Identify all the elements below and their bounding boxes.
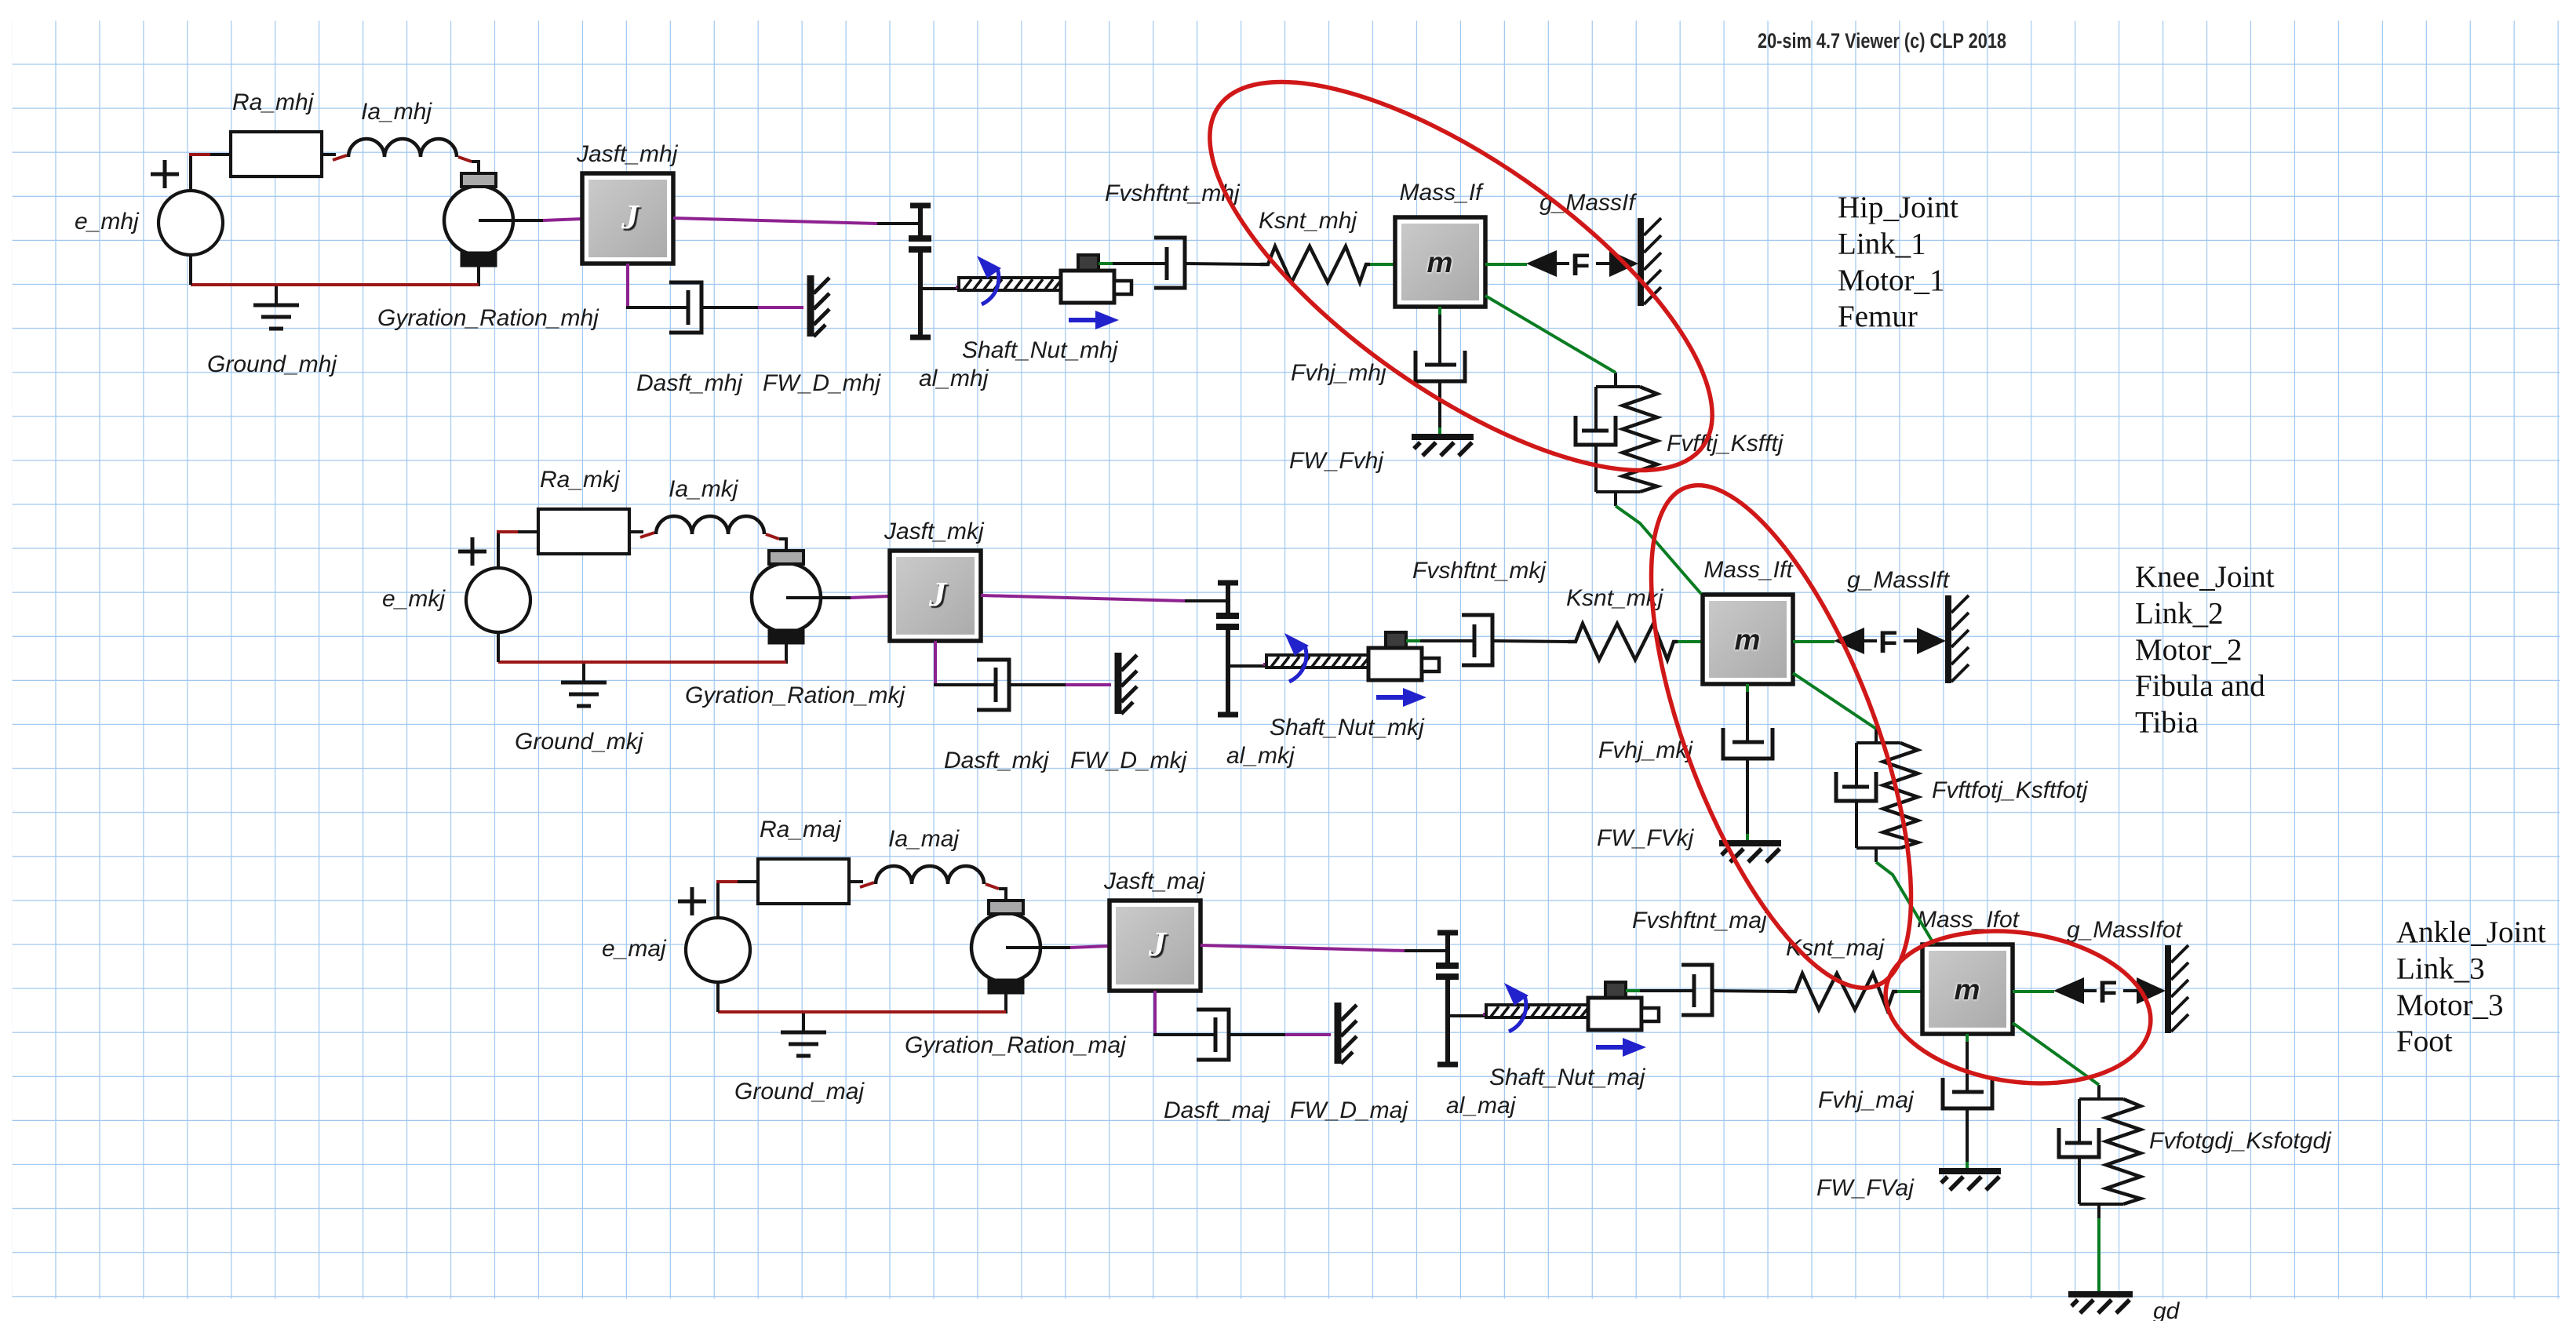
svg-text:20-sim 4.7 Viewer (c) CLP 2018: 20-sim 4.7 Viewer (c) CLP 2018 — [1758, 29, 2006, 53]
wire nut to damper Fvshftnt_mkj — [1420, 639, 1474, 642]
voltage source e_mhj — [151, 160, 223, 255]
wire al_maj to shaft — [1448, 1014, 1488, 1017]
wire nut to damper Fvshftnt_mhj — [1113, 262, 1167, 265]
svg-text:J: J — [1148, 925, 1168, 963]
svg-text:Ra_maj: Ra_maj — [760, 817, 842, 842]
svg-text:FW_D_mhj: FW_D_mhj — [763, 370, 881, 396]
gear transformer al_mhj — [909, 206, 931, 337]
damper Fvhj_mkj — [1723, 728, 1773, 759]
damper Fvshftnt_mkj — [1462, 615, 1492, 665]
wire motor bottom to return — [785, 643, 788, 664]
wire damper to wall FW_D_maj — [1229, 1033, 1285, 1036]
svg-text:Mass_If: Mass_If — [1399, 180, 1484, 206]
wire into al_maj — [1405, 949, 1447, 952]
svg-text:Ia_mkj: Ia_mkj — [669, 476, 739, 502]
svg-text:Fvfftj_Ksfftj: Fvfftj_Ksfftj — [1667, 431, 1784, 457]
wire e_maj bottom vertical — [716, 982, 720, 1012]
green wire from nut — [1406, 639, 1420, 642]
wire e_mhj bottom vertical — [189, 255, 192, 285]
svg-text:Jasft_maj: Jasft_maj — [1103, 868, 1206, 894]
screw shaft of Shaft_Nut_mkj — [1266, 655, 1368, 668]
blue rotation arrow of Shaft_Nut_mkj — [1284, 633, 1309, 682]
fixed world wall g_MassIft — [1948, 595, 1969, 683]
wire resistor to inductor — [322, 153, 336, 156]
damper Dasft_mkj — [977, 660, 1009, 710]
svg-text:g_MassIft: g_MassIft — [1847, 567, 1951, 593]
red tick at inductor Ia_mhj right terminal — [458, 157, 472, 162]
wire into damper Dasft_maj — [1153, 1033, 1215, 1036]
svg-text:al_mkj: al_mkj — [1226, 743, 1295, 769]
svg-text:FW_Fvhj: FW_Fvhj — [1289, 448, 1384, 474]
svg-text:Ksnt_mkj: Ksnt_mkj — [1566, 585, 1664, 611]
wire damper to wall FW_D_mhj — [701, 306, 758, 309]
wire damper to spring Ksnt_mkj — [1492, 641, 1568, 642]
wire inductor to motor top brush — [999, 889, 1006, 901]
mass block Mass_If (m) — [1395, 217, 1485, 307]
wire into damper Dasft_mhj — [626, 306, 688, 309]
purple wire Jasft_mhj to damper Dasft_mhj — [626, 264, 629, 308]
svg-text:Shaft_Nut_mkj: Shaft_Nut_mkj — [1270, 715, 1425, 741]
force arrows F — [2053, 975, 2166, 1010]
wire into al_mkj — [1185, 599, 1227, 602]
blue translation arrow of Shaft_Nut_mkj — [1376, 688, 1426, 707]
ground gd — [2068, 1294, 2133, 1313]
svg-text:Dasft_mkj: Dasft_mkj — [944, 748, 1050, 773]
svg-text:FW_D_maj: FW_D_maj — [1290, 1097, 1408, 1123]
red ellipse around Knee joint mass group — [1598, 454, 1965, 1020]
wire inductor to motor top brush — [779, 539, 786, 551]
svg-text:Ia_maj: Ia_maj — [888, 826, 960, 852]
force arrows F — [1526, 248, 1638, 282]
inductor Ia_mkj — [656, 516, 764, 534]
svg-text:Jasft_mkj: Jasft_mkj — [884, 519, 985, 544]
green stub at ground FW_FVkj — [1746, 834, 1749, 841]
svg-text:Fvftfotj_Ksftfotj: Fvftfotj_Ksftfotj — [1932, 777, 2089, 803]
force arrows F — [1834, 625, 1946, 660]
svg-text:m: m — [1427, 246, 1453, 278]
wire e_mkj bottom vertical — [497, 632, 500, 662]
svg-text:Dasft_mhj: Dasft_mhj — [636, 370, 743, 396]
wire nut to damper Fvshftnt_maj — [1640, 989, 1694, 992]
svg-text:Hip_Joint: Hip_Joint — [1838, 191, 1958, 224]
svg-text:F: F — [2098, 975, 2117, 1010]
svg-text:F: F — [1878, 625, 1897, 660]
svg-text:Fvfotgdj_Ksfotgdj: Fvfotgdj_Ksfotgdj — [2149, 1128, 2332, 1154]
svg-text:Fvhj_mhj: Fvhj_mhj — [1291, 360, 1387, 386]
fixed world wall FW_D_mhj — [811, 275, 829, 337]
green stub at ground FW_Fvhj — [1438, 428, 1441, 435]
wire into damper Dasft_mkj — [934, 683, 996, 686]
svg-text:Motor_1: Motor_1 — [1838, 264, 1945, 297]
inductor Ia_maj — [876, 866, 984, 884]
svg-text:Femur: Femur — [1838, 300, 1918, 333]
blue translation arrow of Shaft_Nut_mhj — [1069, 311, 1119, 329]
purple wire segment to wall FW_D_mhj — [758, 306, 803, 309]
voltage source e_mkj — [458, 537, 530, 632]
wire damper Fvhj_maj to ground — [1966, 1108, 1969, 1162]
green wire into spring-damper Fvfftj_Ksfftj — [1614, 373, 1617, 373]
nut of Shaft_Nut_mhj — [1061, 255, 1131, 303]
purple wire segment to wall FW_D_mkj — [1066, 683, 1111, 686]
green wire spring to mass — [1678, 640, 1704, 643]
svg-text:Link_3: Link_3 — [2396, 952, 2485, 985]
nut of Shaft_Nut_mkj — [1368, 632, 1439, 680]
purple wire under shaft — [1483, 1013, 1547, 1016]
svg-text:Fibula and: Fibula and — [2135, 669, 2265, 703]
green wire into spring-damper Fvfotgdj_Ksfotgdj — [2097, 1085, 2101, 1086]
wire inductor to motor top brush — [472, 162, 479, 174]
spring Ksnt_mkj — [1568, 624, 1678, 660]
svg-text:J: J — [928, 575, 948, 613]
wire mass to damper Fvhj_mkj — [1746, 692, 1749, 741]
svg-text:FW_D_mkj: FW_D_mkj — [1070, 748, 1188, 773]
purple wire Jasft_maj to al_maj — [1201, 945, 1405, 951]
blue rotation arrow of Shaft_Nut_maj — [1504, 983, 1528, 1032]
wire damper to wall FW_D_mkj — [1009, 683, 1066, 686]
svg-text:Jasft_mhj: Jasft_mhj — [576, 141, 679, 167]
purple wire segment to wall FW_D_maj — [1285, 1033, 1331, 1036]
resistor Ra_maj — [758, 859, 849, 904]
red ellipse around Ankle joint mass group — [1875, 915, 2160, 1099]
ground Ground_maj — [781, 1013, 826, 1056]
spring-damper Fvftfotj_Ksftfotj — [1836, 729, 1918, 862]
wire to resistor Ra_mkj — [518, 530, 538, 533]
wire resistor to inductor — [849, 880, 863, 883]
inertia block Jasft_mkj (J) — [890, 551, 981, 641]
fixed world wall FW_D_mkj — [1118, 653, 1137, 714]
resistor Ra_mhj — [231, 132, 322, 176]
red tick at inductor Ia_maj right terminal — [986, 884, 999, 889]
svg-text:Knee_Joint: Knee_Joint — [2135, 560, 2275, 594]
wire e_mkj top vertical — [497, 532, 500, 568]
svg-text:FW_FVkj: FW_FVkj — [1597, 825, 1695, 851]
green wire mass Mass_Ifot to spring-damper Fvfotgdj_Ksfotgdj — [2013, 1023, 2099, 1085]
red tick at inductor Ia_mhj left terminal — [333, 155, 347, 160]
inertia block Jasft_maj (J) — [1109, 901, 1201, 991]
svg-text:Tibia: Tibia — [2135, 706, 2199, 740]
inertia block Jasft_mhj (J) — [582, 173, 673, 264]
DC motor Gyration_Ration_maj — [971, 901, 1070, 993]
wire motor bottom to return — [477, 266, 480, 286]
svg-text:Ankle_Joint: Ankle_Joint — [2396, 915, 2546, 949]
ground FW_FVaj — [1939, 1171, 2001, 1190]
green wire from nut — [1099, 262, 1113, 265]
svg-text:e_mkj: e_mkj — [382, 586, 446, 612]
fixed world wall g_MassIfot — [2168, 945, 2188, 1033]
svg-text:m: m — [1735, 624, 1761, 656]
green wire mass Mass_If to spring-damper Fvfftj_Ksfftj — [1485, 296, 1616, 373]
svg-text:Link_2: Link_2 — [2135, 596, 2224, 630]
svg-text:Gyration_Ration_mhj: Gyration_Ration_mhj — [377, 305, 599, 331]
svg-text:Dasft_maj: Dasft_maj — [1164, 1097, 1270, 1123]
damper Dasft_maj — [1197, 1010, 1229, 1060]
wire al_mhj to shaft — [920, 287, 960, 290]
svg-text:J: J — [621, 198, 640, 236]
wire motor bottom to return — [1004, 993, 1007, 1013]
wire damper to spring Ksnt_maj — [1712, 991, 1787, 992]
spring-damper Fvfftj_Ksfftj — [1576, 373, 1657, 506]
svg-text:al_maj: al_maj — [1446, 1093, 1517, 1119]
purple wire Jasft_mhj to al_mhj — [673, 218, 877, 224]
svg-text:Gyration_Ration_maj: Gyration_Ration_maj — [905, 1032, 1127, 1058]
screw shaft of Shaft_Nut_maj — [1486, 1005, 1588, 1017]
svg-text:m: m — [1955, 973, 1980, 1006]
purple wire motor to Jasft_mkj — [851, 596, 890, 598]
wire red segment at e_maj plus terminal — [716, 880, 738, 883]
svg-text:Motor_3: Motor_3 — [2396, 988, 2504, 1022]
gear transformer al_maj — [1436, 933, 1459, 1064]
svg-text:Ground_mhj: Ground_mhj — [207, 351, 337, 377]
wire e_maj top vertical — [716, 882, 720, 918]
blue translation arrow of Shaft_Nut_maj — [1596, 1038, 1646, 1057]
damper Fvshftnt_maj — [1682, 965, 1712, 1015]
purple wire Jasft_mkj to damper Dasft_mkj — [934, 641, 937, 685]
green wire spring-damper Fvfftj_Ksfftj to mass Mass_Ift — [1616, 506, 1701, 594]
red tick at inductor Ia_maj left terminal — [860, 882, 874, 887]
green wire mass to force F — [1793, 640, 1835, 643]
svg-text:Mass_Ifot: Mass_Ifot — [1917, 907, 2020, 933]
svg-text:Fvshftnt_mkj: Fvshftnt_mkj — [1412, 558, 1547, 584]
purple wire Jasft_maj to damper Dasft_maj — [1153, 991, 1157, 1035]
green wire mass to force F — [2013, 990, 2054, 993]
svg-text:Ground_maj: Ground_maj — [734, 1079, 865, 1104]
wire e_mhj top vertical — [189, 155, 192, 191]
purple wire under shaft — [1263, 663, 1328, 666]
spring Ksnt_maj — [1787, 973, 1897, 1010]
annotation Hip_Joint block — [1838, 191, 1958, 333]
purple wire motor to Jasft_maj — [1070, 946, 1109, 948]
purple wire motor to Jasft_mhj — [543, 219, 582, 220]
wire mass to damper Fvhj_mhj — [1438, 315, 1441, 364]
red tick at inductor Ia_mkj right terminal — [766, 534, 779, 539]
green wire spring to mass — [1370, 263, 1397, 266]
green wire spring-damper Fvftfotj_Ksftfotj to mass Mass_Ifot — [1876, 862, 1934, 944]
damper Fvhj_maj — [1943, 1078, 1992, 1108]
svg-text:g_MassIfot: g_MassIfot — [2067, 917, 2183, 943]
svg-text:Gyration_Ration_mkj: Gyration_Ration_mkj — [685, 682, 905, 708]
svg-text:Ground_mkj: Ground_mkj — [515, 729, 644, 755]
spring Ksnt_mhj — [1260, 246, 1370, 282]
red return wire — [498, 660, 786, 664]
annotation Ankle_Joint block — [2396, 915, 2546, 1058]
svg-text:Motor_2: Motor_2 — [2135, 633, 2243, 667]
svg-text:Shaft_Nut_mhj: Shaft_Nut_mhj — [962, 337, 1119, 363]
purple wire under shaft — [956, 286, 1020, 289]
svg-text:Mass_Ift: Mass_Ift — [1703, 557, 1794, 583]
blue rotation arrow of Shaft_Nut_mhj — [977, 256, 1001, 304]
svg-text:al_mhj: al_mhj — [919, 366, 989, 391]
annotation Knee_Joint block — [2135, 560, 2275, 740]
ground Ground_mkj — [561, 664, 607, 706]
wire red segment at e_mkj plus terminal — [497, 530, 518, 533]
inductor Ia_mhj — [348, 139, 457, 157]
green wire spring-damper Fvfotgdj_Ksfotgdj to ground gd — [2097, 1218, 2101, 1291]
green wire spring to mass — [1897, 990, 1924, 993]
svg-text:FW_FVaj: FW_FVaj — [1816, 1175, 1915, 1201]
svg-text:F: F — [1571, 248, 1590, 282]
red tick at inductor Ia_mkj left terminal — [640, 533, 654, 537]
svg-text:Ra_mhj: Ra_mhj — [232, 89, 315, 115]
resistor Ra_mkj — [538, 509, 629, 554]
wire resistor to inductor — [629, 530, 643, 533]
svg-text:e_maj: e_maj — [602, 936, 667, 962]
ground FW_Fvhj — [1412, 437, 1474, 456]
svg-text:Link_1: Link_1 — [1838, 227, 1926, 260]
svg-text:Ia_mhj: Ia_mhj — [361, 99, 432, 125]
svg-text:Fvhj_maj: Fvhj_maj — [1818, 1087, 1915, 1113]
svg-text:Ksnt_mhj: Ksnt_mhj — [1259, 208, 1357, 234]
red return wire — [718, 1010, 1006, 1013]
voltage source e_maj — [678, 887, 750, 982]
DC motor Gyration_Ration_mhj — [444, 173, 543, 266]
fixed world wall g_MassIf — [1641, 218, 1661, 306]
green wire mass Mass_Ift to spring-damper Fvftfotj_Ksftfotj — [1793, 673, 1876, 729]
green stub below mass — [1966, 1034, 1969, 1042]
svg-text:Fvshftnt_maj: Fvshftnt_maj — [1632, 908, 1768, 933]
purple wire Jasft_mkj to al_mkj — [981, 595, 1185, 601]
mass block Mass_Ifot (m) — [1922, 944, 2013, 1034]
wire damper Fvhj_mhj to ground — [1438, 381, 1441, 428]
gear transformer al_mkj — [1216, 583, 1239, 715]
spring-damper Fvfotgdj_Ksfotgdj — [2059, 1085, 2141, 1218]
svg-text:Fvhj_mkj: Fvhj_mkj — [1598, 737, 1693, 763]
svg-text:gd: gd — [2153, 1298, 2181, 1321]
ground Ground_mhj — [253, 286, 299, 329]
nut of Shaft_Nut_maj — [1588, 982, 1659, 1030]
damper Fvshftnt_mhj — [1154, 238, 1185, 288]
screw shaft of Shaft_Nut_mhj — [959, 278, 1061, 290]
svg-text:Ra_mkj: Ra_mkj — [540, 467, 621, 493]
ground FW_FVkj — [1719, 843, 1781, 862]
green stub below mass — [1438, 307, 1441, 315]
wire al_mkj to shaft — [1228, 664, 1268, 668]
green wire from nut — [1626, 989, 1640, 992]
mass block Mass_Ift (m) — [1703, 595, 1793, 684]
svg-text:Foot: Foot — [2396, 1024, 2453, 1058]
fixed world wall FW_D_maj — [1338, 1003, 1357, 1064]
DC motor Gyration_Ration_mkj — [752, 551, 851, 643]
green stub below mass — [1746, 684, 1749, 692]
green stub at ground FW_FVaj — [1966, 1162, 1969, 1169]
green wire into spring-damper Fvftfotj_Ksftfotj — [1875, 729, 1878, 730]
wire mass to damper Fvhj_maj — [1966, 1042, 1969, 1091]
wire to resistor Ra_maj — [738, 880, 758, 883]
wire red segment at e_mhj plus terminal — [189, 153, 210, 156]
svg-text:Ksnt_maj: Ksnt_maj — [1786, 935, 1885, 961]
wire into al_mhj — [877, 222, 920, 225]
green wire mass to force F — [1485, 263, 1527, 266]
damper Dasft_mhj — [669, 282, 701, 333]
wire damper Fvhj_mkj to ground — [1746, 759, 1749, 834]
red ellipse around Hip joint mass group — [1153, 12, 1769, 540]
damper Fvhj_mhj — [1416, 351, 1465, 381]
svg-text:e_mhj: e_mhj — [75, 209, 140, 235]
wire to resistor Ra_mhj — [210, 153, 231, 156]
svg-text:Shaft_Nut_maj: Shaft_Nut_maj — [1489, 1064, 1646, 1090]
red return wire — [191, 283, 479, 286]
wire damper to spring Ksnt_mhj — [1185, 264, 1260, 264]
